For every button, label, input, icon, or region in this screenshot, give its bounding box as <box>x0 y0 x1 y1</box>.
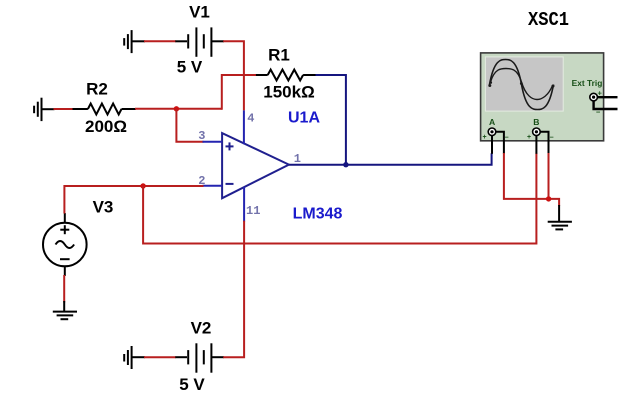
wire <box>176 109 203 142</box>
svg-text:200Ω: 200Ω <box>85 117 127 136</box>
svg-text:−: − <box>505 134 509 141</box>
resistor R1 <box>256 70 317 81</box>
pin 11 stub <box>243 187 245 222</box>
terminal Ext Trig <box>590 93 598 101</box>
wire <box>223 41 244 110</box>
op-amp U1A <box>222 133 289 198</box>
ext trig stub - <box>594 101 618 109</box>
pin 3 stub <box>203 141 223 143</box>
svg-text:3: 3 <box>198 129 205 143</box>
wire <box>223 221 244 358</box>
resistor R2 <box>73 104 137 115</box>
wire <box>504 153 559 206</box>
wire <box>548 153 550 199</box>
scope trace A <box>490 60 554 110</box>
svg-text:LM348: LM348 <box>293 206 343 223</box>
A+ stub <box>491 136 493 154</box>
scope trace B <box>491 69 553 100</box>
svg-text:V3: V3 <box>93 198 114 217</box>
ext trig stub + <box>598 96 618 98</box>
svg-text:5 V: 5 V <box>177 58 203 77</box>
ground (R2) <box>34 98 54 121</box>
pin 2 stub <box>203 185 223 187</box>
ground (scope) <box>548 205 572 229</box>
terminal B <box>533 128 541 136</box>
junction <box>140 183 145 188</box>
wire <box>143 153 536 243</box>
wire <box>135 108 222 110</box>
svg-text:+: + <box>527 134 531 141</box>
wire <box>144 356 176 358</box>
svg-text:R1: R1 <box>268 46 290 65</box>
junction <box>343 162 348 167</box>
B+ stub <box>535 136 537 154</box>
svg-text:5 V: 5 V <box>179 375 205 394</box>
pin 4 stub <box>243 110 245 144</box>
svg-text:U1A: U1A <box>288 110 320 127</box>
svg-text:−: − <box>550 134 554 141</box>
wire <box>316 75 346 166</box>
svg-text:B: B <box>533 117 539 127</box>
battery V2 <box>175 343 224 372</box>
junction <box>546 196 551 201</box>
svg-text:+: + <box>483 134 487 141</box>
scope trace marks <box>488 81 554 87</box>
svg-text:XSC1: XSC1 <box>528 9 569 31</box>
wire <box>222 75 257 110</box>
svg-text:11: 11 <box>246 204 260 218</box>
svg-text:A: A <box>489 117 495 127</box>
svg-text:4: 4 <box>247 112 254 126</box>
svg-text:1: 1 <box>294 152 301 166</box>
A- stub <box>496 132 504 154</box>
ground (V1) <box>124 30 145 53</box>
terminal A <box>488 128 496 136</box>
junction <box>174 106 179 111</box>
svg-text:Ext Trig: Ext Trig <box>572 78 603 88</box>
wire <box>144 40 176 42</box>
svg-text:R2: R2 <box>86 80 108 99</box>
ground (V3) <box>53 301 77 319</box>
battery V1 <box>175 27 224 56</box>
source V3 <box>43 213 87 276</box>
pin 1 stub / output wire <box>289 153 492 165</box>
ground (V2) <box>124 346 145 369</box>
svg-text:V1: V1 <box>189 3 210 22</box>
wire <box>54 108 74 110</box>
svg-text:V2: V2 <box>191 319 212 338</box>
B- stub <box>540 132 548 154</box>
oscilloscope XSC1 <box>481 53 618 154</box>
svg-text:150kΩ: 150kΩ <box>263 83 314 102</box>
wire <box>63 275 65 303</box>
svg-text:−: − <box>596 108 601 117</box>
wire <box>64 186 203 214</box>
